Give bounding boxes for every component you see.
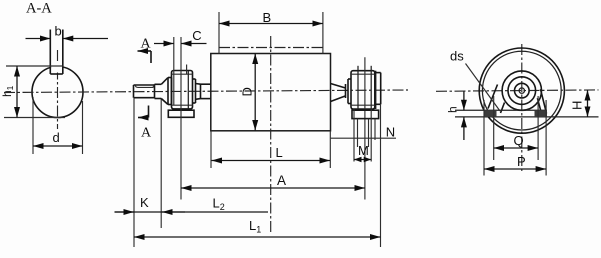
end view horizontal centerline [436, 90, 599, 91]
drum body [211, 54, 331, 131]
shaft section circle [32, 67, 83, 118]
dimension N line [331, 125, 396, 140]
left bearing cone [161, 78, 168, 105]
svg-text:A: A [141, 126, 152, 141]
svg-text:H: H [570, 101, 585, 110]
drum vertical centerline [270, 36, 272, 232]
dimension B [219, 10, 323, 54]
svg-text:L: L [276, 145, 283, 160]
dimension K [115, 195, 269, 212]
dimension A [181, 173, 365, 188]
svg-text:A: A [277, 173, 286, 188]
end view vertical centerline [521, 44, 523, 172]
right bearing housing [351, 66, 375, 109]
dimension L2 [162, 196, 225, 213]
support legs [488, 85, 547, 114]
dimension L [211, 131, 330, 168]
svg-text:N: N [386, 125, 395, 140]
left bearing collar [168, 78, 172, 105]
K right extension line [160, 99, 162, 229]
dimension C [154, 28, 207, 200]
label ds with leader [450, 49, 500, 112]
L1 right extension line [380, 104, 382, 247]
svg-text:B: B [263, 10, 272, 25]
dimension h1 [0, 66, 65, 118]
svg-text:d: d [53, 130, 60, 145]
dimension H [570, 90, 588, 117]
section title A-A [26, 1, 52, 17]
right hub cone [331, 84, 346, 102]
dimension L1 [134, 218, 381, 237]
svg-text:K: K [140, 195, 149, 210]
dimension b [26, 24, 109, 39]
svg-text:M: M [358, 143, 369, 158]
svg-text:C: C [192, 28, 201, 43]
svg-text:P: P [517, 154, 526, 169]
svg-text:A-A: A-A [26, 1, 52, 17]
dimension M [354, 143, 371, 160]
svg-text:A: A [141, 37, 152, 52]
end view rim circles [479, 48, 564, 133]
svg-text:D: D [240, 87, 255, 96]
dimension D [240, 54, 256, 131]
section cut marker A bottom [138, 106, 152, 141]
dimension h [446, 92, 464, 141]
mounting pads [455, 110, 599, 117]
main horizontal centerline [4, 90, 408, 93]
keyway slot [50, 30, 63, 75]
dimension Q [494, 96, 538, 160]
section cut marker A top [138, 37, 152, 64]
left hub boss [196, 84, 211, 100]
svg-text:h: h [446, 106, 460, 113]
right bearing base plate [352, 110, 379, 118]
shaft left end with keyway [134, 84, 162, 98]
left bearing housing [172, 65, 193, 109]
belt line [219, 47, 323, 49]
dimension d [33, 97, 83, 154]
svg-text:Q: Q [514, 133, 524, 148]
section view vertical centerline [57, 50, 59, 129]
right bearing centerline [364, 57, 366, 199]
right pedestal lines [354, 109, 375, 162]
right bearing collar [348, 79, 351, 104]
left bearing base plate [168, 110, 194, 117]
L1 left extension line [133, 98, 135, 247]
right bearing outer cap [375, 73, 380, 105]
dimension P [484, 100, 546, 176]
left bearing end cap [193, 79, 196, 103]
end view hub circles [502, 71, 541, 110]
svg-text:ds: ds [450, 49, 464, 64]
svg-text:b: b [55, 24, 62, 39]
